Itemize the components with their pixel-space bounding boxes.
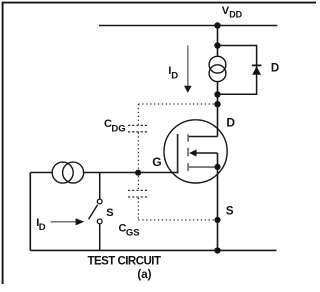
svg-text:D: D — [271, 62, 279, 74]
node bottom rail — [214, 247, 220, 253]
source lead — [188, 166, 215, 168]
left wire down — [29, 173, 31, 251]
capacitor CGS plates — [128, 189, 148, 191]
svg-text:D: D — [226, 116, 235, 130]
svg-text:TEST CIRCUIT: TEST CIRCUIT — [88, 255, 162, 267]
dotted CGS: vertical upper — [137, 176, 139, 190]
channel bar top — [187, 134, 189, 141]
bottom rail — [30, 249, 276, 251]
switch contact top — [97, 199, 102, 204]
arrow I_D (upper) — [187, 46, 189, 87]
diode branch wires — [218, 46, 257, 95]
node diode branch bottom — [214, 91, 220, 97]
capacitor CDG plates — [128, 124, 147, 126]
gate wire right segment — [84, 172, 178, 174]
VDD top rail — [99, 25, 277, 27]
wire drain trunk below current source — [217, 82, 219, 137]
dotted CDG: vertical lower to gate node — [137, 132, 139, 170]
node gate — [135, 170, 141, 176]
switch wire lower — [99, 224, 101, 251]
node CDG tap — [214, 101, 220, 107]
channel bar bottom — [187, 163, 189, 171]
node CGS tap — [214, 217, 220, 223]
switch contact bottom — [97, 219, 102, 224]
current source I_D (left) — [52, 162, 73, 183]
svg-text:GS: GS — [126, 228, 140, 239]
gate wire left segment — [30, 172, 52, 174]
svg-text:G: G — [152, 155, 161, 169]
svg-text:D: D — [39, 222, 46, 233]
svg-text:DD: DD — [229, 10, 242, 20]
node at VDD rail — [214, 22, 220, 28]
dotted CGS: vertical lower — [137, 198, 139, 220]
node source/body junction — [214, 164, 220, 170]
switch arm — [89, 205, 98, 220]
svg-text:S: S — [106, 207, 113, 219]
gate bar — [176, 134, 179, 173]
drain lead — [189, 136, 218, 138]
dotted CGS: horizontal run to source — [138, 219, 214, 221]
channel bar middle — [187, 148, 189, 157]
dotted CDG: horizontal run — [138, 103, 214, 105]
svg-text:D: D — [171, 70, 178, 81]
node diode branch top — [214, 42, 220, 48]
wire drain trunk upper — [217, 26, 219, 57]
diode D — [252, 64, 261, 66]
body arrow — [189, 149, 196, 156]
mosfet body circle U1 — [164, 120, 227, 183]
switch S wire upper — [99, 173, 101, 200]
svg-text:DG: DG — [111, 124, 125, 135]
svg-text:S: S — [226, 206, 234, 218]
source trunk down from body line — [217, 153, 219, 250]
svg-text:(a): (a) — [137, 269, 151, 281]
dotted CDG: vertical upper — [137, 104, 139, 125]
current source I_D (upper) — [209, 56, 226, 73]
arrow I_D (left) — [51, 221, 77, 223]
